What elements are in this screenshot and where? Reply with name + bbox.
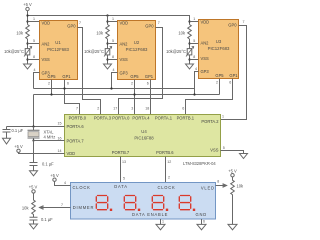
- resistor R3 10k: [188, 25, 192, 40]
- svg-text:VDD: VDD: [42, 20, 51, 25]
- wire VSS U2: [108, 59, 118, 61]
- svg-text:8: 8: [193, 55, 195, 59]
- wire U1 GP1: [65, 80, 80, 115]
- svg-text:7: 7: [158, 21, 160, 25]
- svg-text:PORTA.3: PORTA.3: [94, 116, 112, 121]
- wire crystal to C2: [33, 141, 35, 163]
- thermistor RT3 10k@25C: [186, 47, 194, 57]
- svg-text:10k: 10k: [16, 31, 24, 36]
- node U1 VDD: [26, 20, 28, 22]
- svg-text:VDD: VDD: [201, 19, 210, 24]
- svg-text:6: 6: [229, 81, 231, 85]
- svg-text:8: 8: [112, 55, 114, 59]
- node B-U1GP5: [50, 93, 52, 95]
- svg-text:1: 1: [33, 17, 35, 21]
- svg-text:10k@25°C: 10k@25°C: [4, 49, 24, 54]
- svg-text:GP5: GP5: [130, 74, 139, 79]
- svg-text:1: 1: [222, 114, 224, 118]
- svg-text:VSS: VSS: [42, 57, 50, 62]
- node U1 VSS: [26, 58, 28, 60]
- svg-text:2: 2: [97, 107, 99, 111]
- wire VDD U3: [190, 21, 199, 23]
- svg-text:7: 7: [61, 203, 63, 207]
- ground U1: [24, 64, 32, 69]
- svg-text:2: 2: [216, 81, 218, 85]
- pin numbers U4 top: [58, 107, 225, 164]
- ground U3: [186, 64, 194, 69]
- node U3 VSS: [188, 58, 190, 60]
- svg-text:PORTA.2: PORTA.2: [201, 119, 219, 124]
- svg-text:GP0: GP0: [145, 24, 154, 29]
- node B-U2GP5: [133, 93, 135, 95]
- svg-text:3: 3: [131, 107, 133, 111]
- svg-text:PORTB.1: PORTB.1: [177, 116, 195, 121]
- svg-text:CLOCK: CLOCK: [73, 185, 91, 190]
- wire U2 chain vertical: [107, 16, 109, 64]
- wire AN2 U1: [28, 43, 40, 45]
- ground C1: [3, 138, 11, 144]
- wire U1 GP5: [51, 80, 53, 95]
- thermistor RT2 10k@25C: [104, 47, 112, 57]
- ground GND pin: [197, 224, 206, 229]
- wire +5V rail: [28, 11, 190, 22]
- svg-text:5: 5: [223, 146, 225, 150]
- svg-text:AN2: AN2: [42, 41, 51, 46]
- 7-segment digit 4: [179, 196, 190, 210]
- svg-text:5: 5: [123, 177, 125, 181]
- svg-text:7: 7: [243, 20, 245, 24]
- wire PORTA.7: [34, 140, 65, 142]
- svg-text:VSS: VSS: [120, 57, 128, 62]
- svg-text:PORTB.0: PORTB.0: [69, 116, 87, 121]
- svg-text:GP3: GP3: [201, 69, 210, 74]
- display DS1 LTM-8328PKR: [71, 183, 216, 220]
- svg-text:+5 V: +5 V: [228, 168, 237, 173]
- +5V terminal LED pot: [231, 174, 234, 177]
- wire DATA ENABLE to ground: [160, 219, 162, 224]
- svg-text:2: 2: [48, 82, 50, 86]
- svg-text:+5 V: +5 V: [50, 173, 59, 178]
- capacitor C2 0.1uF: [30, 163, 38, 171]
- MCU U4 PIC16F88: [65, 115, 221, 157]
- wire U1 chain vertical: [27, 16, 29, 64]
- wire U1 GP0: [78, 28, 101, 115]
- svg-text:18: 18: [145, 107, 149, 111]
- wire VDD U4: [19, 153, 65, 154]
- wire U2 GP0: [119, 28, 163, 115]
- svg-text:1: 1: [112, 17, 114, 21]
- svg-text:CLOCK: CLOCK: [157, 185, 175, 190]
- svg-text:0.1 µF: 0.1 µF: [41, 217, 53, 222]
- svg-text:PORTA.7: PORTA.7: [67, 138, 85, 143]
- thermistor RT1 10k@25C: [24, 47, 32, 57]
- svg-text:GP1: GP1: [145, 74, 154, 79]
- wire U2 GP5: [134, 80, 136, 115]
- ground C2: [30, 171, 38, 176]
- node crystal top: [32, 125, 34, 127]
- svg-text:VLED: VLED: [201, 186, 215, 191]
- svg-text:PIC12F683: PIC12F683: [47, 47, 69, 52]
- wire VSS U3: [190, 59, 199, 61]
- wire bus line B: [34, 95, 220, 127]
- wire AN2 U2: [108, 43, 118, 45]
- wire display VDD pin 4: [55, 181, 71, 185]
- svg-text:13: 13: [122, 160, 126, 164]
- svg-text:5: 5: [193, 39, 195, 43]
- ground R5: [228, 224, 237, 229]
- wire dimmer wiper: [40, 206, 71, 209]
- svg-text:PORTA.4: PORTA.4: [132, 116, 150, 121]
- svg-text:12: 12: [167, 160, 171, 164]
- svg-text:GP0: GP0: [228, 23, 237, 28]
- svg-text:DATA ENABLE: DATA ENABLE: [132, 212, 168, 217]
- potentiometer R5 10k VLED: [231, 177, 235, 225]
- svg-text:AN2: AN2: [201, 40, 210, 45]
- svg-text:LTM-8328PKR-04: LTM-8328PKR-04: [183, 161, 216, 166]
- svg-text:+5 V: +5 V: [14, 144, 23, 149]
- op IC U3 PIC12F683: [199, 19, 239, 78]
- svg-text:10k: 10k: [178, 31, 186, 36]
- svg-text:4: 4: [34, 68, 36, 72]
- decimal point 1: [110, 209, 112, 211]
- node U2 VDD: [106, 20, 108, 22]
- svg-text:U4: U4: [141, 129, 147, 134]
- wire U2 GP3: [112, 73, 118, 89]
- svg-text:VSS: VSS: [210, 148, 218, 153]
- potentiometer R4 10k dimmer: [32, 193, 36, 217]
- wire U2 GP1: [150, 80, 152, 115]
- svg-text:VDD: VDD: [67, 151, 76, 156]
- svg-text:PORTB.6: PORTB.6: [156, 150, 174, 155]
- svg-text:5: 5: [112, 39, 114, 43]
- svg-text:10k@25°C: 10k@25°C: [84, 49, 104, 54]
- svg-text:8: 8: [217, 180, 219, 184]
- wire U3 GP5: [219, 79, 221, 95]
- svg-text:4: 4: [64, 181, 66, 185]
- node A-U2GP3: [110, 87, 112, 89]
- +5V supply terminal top left: [26, 7, 29, 10]
- +5V terminal dimmer pot: [32, 190, 35, 193]
- svg-text:7: 7: [79, 21, 81, 25]
- wire GND pin to ground: [201, 219, 203, 224]
- decimal point 4: [193, 209, 195, 211]
- svg-text:2: 2: [168, 176, 170, 180]
- svg-text:10k: 10k: [22, 206, 30, 211]
- node U3 AN2: [188, 42, 190, 44]
- svg-text:DATA: DATA: [114, 184, 128, 189]
- node U3 VDD: [188, 20, 190, 22]
- svg-text:5: 5: [33, 39, 35, 43]
- svg-text:DIMMER: DIMMER: [73, 205, 94, 210]
- svg-text:10k@25°C: 10k@25°C: [166, 49, 186, 54]
- svg-text:VDD: VDD: [120, 20, 129, 25]
- node rail-U2: [106, 14, 108, 16]
- wire U3 GP3: [195, 72, 199, 95]
- wire PORTB.6 to display CLOCK: [165, 157, 167, 183]
- wire PORTB.7 to display DATA: [120, 157, 122, 183]
- wire bus line A: [34, 88, 195, 90]
- wire U3 GP1: [186, 79, 233, 115]
- node crystal bottom: [32, 139, 34, 141]
- svg-text:10k: 10k: [96, 31, 104, 36]
- node U1 AN2: [26, 42, 28, 44]
- resistor R1 10k: [26, 25, 30, 40]
- svg-text:PIC12F683: PIC12F683: [126, 47, 148, 52]
- wire VSS U4 to ground: [221, 151, 244, 154]
- svg-text:15: 15: [58, 121, 62, 125]
- svg-text:0.1 µF: 0.1 µF: [12, 128, 24, 133]
- svg-text:GP3: GP3: [120, 70, 129, 75]
- svg-text:PORTA.0: PORTA.0: [112, 116, 130, 121]
- svg-text:PIC12F683: PIC12F683: [208, 46, 230, 51]
- svg-text:PORTB.7: PORTB.7: [112, 150, 130, 155]
- wire AN2 U3: [190, 43, 199, 45]
- wire U3 chain vertical: [189, 16, 191, 64]
- node U2 VSS: [106, 58, 108, 60]
- node rail-U1: [26, 14, 28, 16]
- svg-text:U2: U2: [134, 40, 140, 45]
- +5V terminal display VDD: [53, 178, 56, 181]
- op IC U2 PIC12F683: [118, 20, 156, 79]
- wire VDD U2: [108, 21, 118, 23]
- ground U2: [104, 64, 112, 69]
- svg-text:0.1 µF: 0.1 µF: [42, 162, 54, 167]
- 7-segment digit 3: [152, 196, 163, 210]
- svg-text:1: 1: [162, 220, 164, 224]
- svg-text:14: 14: [58, 149, 62, 153]
- svg-text:16: 16: [58, 137, 62, 141]
- svg-text:4 MHz: 4 MHz: [44, 134, 56, 139]
- wire U3 GP0: [221, 26, 247, 120]
- wire PORTA.6 to crystal: [7, 126, 65, 128]
- svg-text:GP5: GP5: [47, 74, 56, 79]
- svg-text:+5 V: +5 V: [29, 185, 38, 190]
- svg-text:VSS: VSS: [201, 56, 209, 61]
- capacitor C3 0.1uF: [30, 217, 38, 224]
- svg-text:17: 17: [113, 107, 117, 111]
- ground C3: [30, 224, 38, 229]
- svg-text:GND: GND: [196, 212, 208, 217]
- ground U4 VSS: [240, 154, 248, 159]
- svg-text:U1: U1: [55, 40, 61, 45]
- decimal point 3: [166, 209, 168, 211]
- svg-text:4: 4: [195, 67, 197, 71]
- svg-text:+5 V: +5 V: [23, 2, 32, 7]
- crystal X1: [28, 127, 40, 141]
- svg-text:6: 6: [182, 107, 184, 111]
- svg-text:4: 4: [113, 68, 115, 72]
- svg-text:6: 6: [147, 82, 149, 86]
- capacitor C1 0.1uF: [3, 127, 11, 139]
- node U2 AN2: [106, 42, 108, 44]
- decimal point 2: [138, 209, 140, 211]
- 7-segment digit 1: [96, 196, 107, 210]
- wire VSS U1: [28, 59, 40, 61]
- svg-text:10k: 10k: [237, 184, 245, 189]
- resistor R2 10k: [106, 25, 110, 40]
- svg-text:1: 1: [193, 17, 195, 21]
- svg-text:PIC16F88: PIC16F88: [134, 136, 154, 141]
- wire U1 GP3: [34, 73, 40, 89]
- svg-text:7: 7: [76, 107, 78, 111]
- svg-text:6: 6: [67, 82, 69, 86]
- +5V terminal U4 VDD: [17, 149, 20, 152]
- 7-segment digit 2: [124, 196, 135, 210]
- svg-text:6: 6: [203, 220, 205, 224]
- node B-U3GP3: [193, 93, 195, 95]
- svg-text:U3: U3: [216, 39, 222, 44]
- node A-U1GP1: [63, 87, 65, 89]
- op IC U1 PIC12F683: [40, 20, 78, 79]
- svg-text:AN2: AN2: [120, 41, 129, 46]
- svg-text:GP0: GP0: [67, 24, 76, 29]
- svg-text:PORTA.6: PORTA.6: [67, 124, 85, 129]
- svg-text:PORTA.1: PORTA.1: [155, 116, 173, 121]
- svg-text:GP1: GP1: [62, 74, 71, 79]
- wire VDD U1: [28, 21, 40, 23]
- wire VLED wiper: [216, 184, 227, 187]
- svg-text:GP1: GP1: [229, 73, 238, 78]
- svg-text:GP5: GP5: [215, 73, 224, 78]
- ground DATA ENABLE: [156, 224, 165, 229]
- svg-text:8: 8: [33, 55, 35, 59]
- svg-text:2: 2: [131, 82, 133, 86]
